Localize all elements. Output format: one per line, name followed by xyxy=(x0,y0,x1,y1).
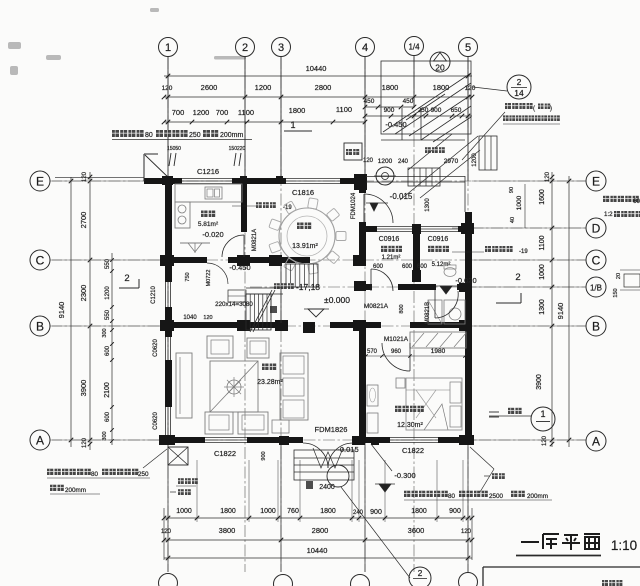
toilet xyxy=(444,268,456,277)
svg-text:-17,18: -17,18 xyxy=(296,282,320,292)
flower bed xyxy=(168,447,188,465)
svg-text:900: 900 xyxy=(449,508,461,515)
axis bubble 5 bottom xyxy=(459,573,478,586)
svg-text:2970: 2970 xyxy=(444,158,459,165)
dining labels xyxy=(297,223,304,230)
top dimension line porch row xyxy=(365,115,472,117)
entry door FDM1024 xyxy=(363,194,365,222)
kitchen counter xyxy=(175,184,242,202)
svg-text:1200: 1200 xyxy=(472,153,478,167)
interior wall axis4 vertical xyxy=(359,181,366,193)
side table bottom xyxy=(272,420,289,433)
svg-text:C: C xyxy=(36,253,45,267)
svg-text:600: 600 xyxy=(105,411,111,422)
svg-text:120: 120 xyxy=(542,435,548,446)
window C1822 left xyxy=(205,437,247,439)
svg-text:200mm: 200mm xyxy=(65,487,86,494)
stair side lines xyxy=(280,263,282,323)
sofa single bottom-left xyxy=(205,412,233,434)
left dimension line overall 9140 xyxy=(70,177,72,447)
svg-text:120: 120 xyxy=(363,158,374,164)
svg-text:C1216: C1216 xyxy=(197,167,219,176)
svg-text:M0821B: M0821B xyxy=(425,302,431,324)
svg-text:10440: 10440 xyxy=(307,546,328,555)
axis bubble C right xyxy=(586,250,606,270)
svg-text:C0916: C0916 xyxy=(428,236,449,243)
title block frame xyxy=(483,566,640,568)
svg-text:FDM1024: FDM1024 xyxy=(351,192,357,219)
sofa single top-right xyxy=(247,338,269,358)
grass label right xyxy=(484,475,490,477)
svg-text:20: 20 xyxy=(435,63,445,73)
svg-text:-0.300: -0.300 xyxy=(394,471,415,480)
svg-text:250: 250 xyxy=(189,132,201,139)
window C0916 right xyxy=(421,226,458,228)
kitchen window note leader xyxy=(232,205,256,207)
kitchen label xyxy=(201,211,208,218)
scan smudges xyxy=(8,8,246,75)
window C1210 west xyxy=(165,282,167,307)
wall C interior xyxy=(165,257,207,263)
kitchen small table xyxy=(180,242,210,244)
svg-text:2: 2 xyxy=(515,272,520,283)
svg-text:A: A xyxy=(36,433,44,447)
svg-text:1: 1 xyxy=(165,42,171,54)
svg-text:2100: 2100 xyxy=(104,382,111,398)
svg-text:240: 240 xyxy=(398,159,409,165)
svg-text:1800: 1800 xyxy=(289,106,306,115)
AC note left-bottom xyxy=(47,469,53,475)
storage door M0821A xyxy=(371,269,393,291)
svg-text:1300: 1300 xyxy=(425,198,431,212)
south steps xyxy=(294,450,354,480)
svg-text:-0.450: -0.450 xyxy=(385,120,406,129)
right edge small detail xyxy=(624,274,640,287)
detail bubble 2/14 xyxy=(507,75,531,99)
svg-text:900: 900 xyxy=(384,107,395,114)
svg-text:1200: 1200 xyxy=(378,158,393,165)
svg-text:1800: 1800 xyxy=(320,508,336,515)
axis bubble E left xyxy=(30,171,50,191)
svg-text:1200: 1200 xyxy=(255,83,272,92)
dresser upper xyxy=(367,385,378,406)
bath fixtures note leader xyxy=(452,251,484,253)
kitchen door M0821A xyxy=(222,235,244,257)
horizontal axis B xyxy=(50,325,586,327)
right dimension line segments xyxy=(551,172,553,447)
svg-text:120: 120 xyxy=(203,315,212,321)
svg-text:2800: 2800 xyxy=(315,83,332,92)
svg-text:14: 14 xyxy=(514,88,524,98)
window C1822 right xyxy=(390,437,438,439)
vertical axis lines xyxy=(167,57,169,572)
entry steps xyxy=(408,168,440,186)
window C0916 left xyxy=(377,226,412,228)
svg-text:2500: 2500 xyxy=(489,493,504,500)
svg-text:13.91m²: 13.91m² xyxy=(292,243,318,250)
top dimension line row3 left xyxy=(164,121,366,123)
svg-text:(: ( xyxy=(533,106,535,112)
svg-text:D: D xyxy=(592,221,601,235)
svg-text:2700: 2700 xyxy=(79,212,88,229)
wardrobe xyxy=(410,332,466,348)
svg-text:80: 80 xyxy=(91,471,99,478)
top dimension line overall 10440 xyxy=(164,75,472,77)
kitchen sink xyxy=(205,187,222,199)
svg-text:960: 960 xyxy=(391,349,402,355)
svg-text:B: B xyxy=(592,319,600,333)
svg-text:150220: 150220 xyxy=(229,146,246,152)
title underline xyxy=(516,555,601,557)
vertical axis extension solid bottom xyxy=(167,443,169,572)
svg-text:-19: -19 xyxy=(519,249,528,255)
svg-text:220x14=3080: 220x14=3080 xyxy=(215,301,253,308)
svg-text:3900: 3900 xyxy=(536,374,543,390)
window C1816 xyxy=(286,178,340,180)
svg-text:FDM1826: FDM1826 xyxy=(315,425,348,434)
axis bubble 2 top xyxy=(236,38,255,57)
svg-text:C0916: C0916 xyxy=(379,236,400,243)
porch labels xyxy=(425,147,431,153)
canopy outline xyxy=(381,61,471,134)
svg-text:300: 300 xyxy=(102,431,108,440)
bottom dimension row1 xyxy=(164,517,472,519)
shower tray xyxy=(428,300,442,324)
wall 1/B interior xyxy=(366,284,372,290)
svg-text:-0.020: -0.020 xyxy=(455,276,476,285)
svg-text:1800: 1800 xyxy=(411,508,427,515)
svg-text:120: 120 xyxy=(82,437,88,448)
axis bubble E right xyxy=(586,171,606,191)
AC note top xyxy=(112,130,119,137)
svg-text:5: 5 xyxy=(465,42,471,54)
window C1216 xyxy=(182,178,232,180)
svg-text:1000: 1000 xyxy=(539,264,546,280)
sofa single bottom-right xyxy=(238,412,268,434)
grass label left xyxy=(170,491,176,493)
axis bubble 3 top xyxy=(272,38,291,57)
svg-text:C1816: C1816 xyxy=(292,188,314,197)
svg-text:C1210: C1210 xyxy=(151,286,157,304)
washing machine xyxy=(344,143,362,160)
svg-text:1600: 1600 xyxy=(539,189,546,205)
left inner dimension line xyxy=(111,253,113,445)
svg-text:150: 150 xyxy=(613,288,619,297)
svg-text:E: E xyxy=(592,174,600,188)
stair landing steps xyxy=(228,290,246,302)
svg-text:1000: 1000 xyxy=(176,508,192,515)
svg-text:-0.450: -0.450 xyxy=(229,263,250,272)
svg-text:1000: 1000 xyxy=(516,195,523,210)
svg-text:-0.020: -0.020 xyxy=(202,230,223,239)
svg-text:2300: 2300 xyxy=(79,285,88,302)
sofa three-seat right xyxy=(280,353,308,420)
svg-text:120: 120 xyxy=(461,529,472,535)
svg-text:80: 80 xyxy=(448,493,456,500)
right step box xyxy=(479,136,497,170)
svg-text:1800: 1800 xyxy=(220,508,236,515)
bedroom labels xyxy=(395,406,401,412)
double door FDM1826 arcs xyxy=(303,443,328,468)
horizontal axis C xyxy=(50,259,586,261)
vertical axis extension solid top xyxy=(167,57,169,181)
axis bubble D right xyxy=(586,218,606,238)
south porch circle xyxy=(327,465,349,487)
leader to porch xyxy=(462,112,505,160)
svg-text:12.30m²: 12.30m² xyxy=(397,422,423,429)
svg-text:900: 900 xyxy=(370,509,382,516)
svg-text:2800: 2800 xyxy=(312,526,329,535)
svg-text:±0.000: ±0.000 xyxy=(324,295,350,305)
svg-text:120: 120 xyxy=(82,171,88,182)
svg-text:1300: 1300 xyxy=(539,299,546,315)
bed xyxy=(406,378,462,430)
svg-text:10440: 10440 xyxy=(306,64,327,73)
flue corner NW xyxy=(143,154,145,181)
stair treads lower xyxy=(246,294,271,330)
left axis extension solids xyxy=(52,180,165,182)
window C0620 upper west xyxy=(165,337,167,360)
next sheet text sliver xyxy=(602,580,608,586)
svg-text:5.81m²: 5.81m² xyxy=(198,221,219,228)
bottom dimension row2 xyxy=(164,539,472,541)
axis bubble 4 bottom xyxy=(351,575,370,586)
porch floor edge lines xyxy=(366,176,465,178)
svg-text:570: 570 xyxy=(367,349,378,355)
wall west xyxy=(165,178,172,282)
leader from 2/14 bubble xyxy=(473,87,507,91)
canopy diagonals xyxy=(383,73,471,132)
detail bubble 2/14 bottom xyxy=(409,567,431,586)
svg-text:40: 40 xyxy=(510,217,516,223)
svg-text:C: C xyxy=(592,253,601,267)
kitchen-dining partition wall xyxy=(241,184,247,232)
right note damp-proof course xyxy=(603,196,609,202)
kitchen stove xyxy=(175,202,190,228)
svg-text:200mm: 200mm xyxy=(220,132,244,139)
svg-text:1040: 1040 xyxy=(183,315,197,321)
horizontal axis D xyxy=(452,227,586,229)
svg-text:23.28m²: 23.28m² xyxy=(257,379,283,386)
dresser lower xyxy=(367,413,378,433)
level symbol porch xyxy=(370,203,378,211)
axis bubble B right xyxy=(586,316,606,336)
svg-text:600: 600 xyxy=(417,264,428,270)
svg-text:9140: 9140 xyxy=(57,302,66,319)
svg-text:1: 1 xyxy=(290,120,295,130)
horizontal axis E xyxy=(50,180,586,182)
svg-text:20: 20 xyxy=(616,273,622,279)
bottom dimension row3 overall xyxy=(164,557,472,559)
columns xyxy=(162,176,173,185)
axis bubble 3 bottom xyxy=(274,575,293,586)
svg-text:60: 60 xyxy=(633,198,640,205)
axis bubble A left xyxy=(30,430,50,450)
svg-text:2: 2 xyxy=(242,42,248,54)
axis bubble A right xyxy=(586,431,606,451)
svg-text:900: 900 xyxy=(431,107,442,114)
porch inner lines xyxy=(401,108,403,140)
svg-text:700: 700 xyxy=(216,108,229,117)
svg-text:600: 600 xyxy=(105,345,111,356)
storage-bath partition wall xyxy=(413,232,420,281)
horizontal axis 1/B xyxy=(250,286,586,288)
top dimension line porch 450s xyxy=(365,106,414,108)
svg-text:450: 450 xyxy=(364,98,375,105)
svg-text:1200: 1200 xyxy=(105,286,111,300)
svg-text:1000: 1000 xyxy=(260,508,276,515)
svg-text:4: 4 xyxy=(362,42,368,54)
svg-text:1100: 1100 xyxy=(336,105,352,114)
AC note bottom-right xyxy=(404,491,410,497)
leader south xyxy=(371,444,392,471)
svg-text:M0821A: M0821A xyxy=(252,229,258,251)
svg-text:1800: 1800 xyxy=(382,83,399,92)
svg-text:M0722: M0722 xyxy=(206,270,212,287)
dining chairs xyxy=(336,232,346,241)
svg-text:C0620: C0620 xyxy=(153,412,159,430)
flower bed label xyxy=(178,478,184,484)
svg-text:200mm: 200mm xyxy=(527,493,548,500)
detail bubble 1 right xyxy=(531,407,555,431)
living labels xyxy=(262,364,269,371)
horizontal axis A xyxy=(50,439,586,441)
svg-text:120: 120 xyxy=(161,529,172,535)
top dimension line row2 xyxy=(164,96,472,98)
svg-text:1100: 1100 xyxy=(539,235,546,250)
svg-text:1/4: 1/4 xyxy=(408,43,420,52)
sofa single top-left xyxy=(207,336,233,358)
tv cabinet xyxy=(176,353,192,418)
right inner dims top xyxy=(524,184,526,228)
svg-text:450: 450 xyxy=(403,98,414,105)
svg-text:C0620: C0620 xyxy=(153,339,159,357)
axis bubble 4 top xyxy=(356,38,375,57)
left dimension line segments xyxy=(89,172,91,450)
right dimension line overall 9140 xyxy=(568,176,570,447)
svg-text:550: 550 xyxy=(105,309,111,320)
bottom dim extension verticals xyxy=(196,460,198,522)
svg-text:1/B: 1/B xyxy=(590,284,602,293)
svg-text:2600: 2600 xyxy=(201,83,218,92)
wall A south xyxy=(165,437,205,443)
svg-text:2: 2 xyxy=(517,77,522,87)
right axis extension solids xyxy=(472,180,586,182)
svg-text:750: 750 xyxy=(185,272,191,281)
E wall extension line left xyxy=(55,177,144,179)
title first-floor plan xyxy=(521,534,600,550)
svg-text:120: 120 xyxy=(162,85,173,92)
svg-text:15050: 15050 xyxy=(167,146,181,152)
leader to bottom bubble xyxy=(341,487,410,578)
stair note xyxy=(274,283,280,289)
svg-text:700: 700 xyxy=(172,108,185,117)
svg-text:3800: 3800 xyxy=(219,526,236,535)
svg-text:2: 2 xyxy=(418,568,423,578)
svg-text:1100: 1100 xyxy=(238,108,254,117)
axis bubble 1/B right xyxy=(586,277,606,297)
svg-text:1200: 1200 xyxy=(193,108,210,117)
svg-text:760: 760 xyxy=(287,508,299,515)
window C0620 lower west xyxy=(165,407,167,436)
svg-text:1: 1 xyxy=(540,409,545,419)
svg-text:900: 900 xyxy=(261,451,267,460)
AC leader right xyxy=(470,447,494,469)
svg-text:2400: 2400 xyxy=(319,484,335,491)
svg-text:1:2: 1:2 xyxy=(604,211,613,218)
svg-text:): ) xyxy=(550,106,552,112)
axis bubble 1 bottom xyxy=(159,574,178,586)
sewage well xyxy=(376,167,394,185)
svg-text:1980: 1980 xyxy=(431,348,446,355)
axis bubble 1 top xyxy=(159,38,178,57)
dining table xyxy=(279,208,335,264)
bedside table xyxy=(396,378,405,388)
septic tank note xyxy=(505,103,511,109)
svg-text:2: 2 xyxy=(124,273,129,284)
rug with plant xyxy=(210,361,258,412)
axis bubble 1/4 top xyxy=(405,37,424,56)
svg-text:250: 250 xyxy=(138,471,149,478)
up 2400 label xyxy=(306,481,313,489)
wall east axis5 xyxy=(465,212,472,443)
roof symbol bubble 20 xyxy=(430,52,450,72)
vent symbols xyxy=(169,153,171,166)
svg-text:E: E xyxy=(36,174,44,188)
svg-text:120: 120 xyxy=(545,171,551,182)
svg-text:300: 300 xyxy=(102,328,108,337)
svg-text:1800: 1800 xyxy=(433,83,450,92)
wall B interior xyxy=(165,322,283,328)
svg-text:B: B xyxy=(36,319,44,333)
svg-text:1.21m²: 1.21m² xyxy=(382,255,401,261)
svg-text:3600: 3600 xyxy=(408,526,425,535)
svg-text:600: 600 xyxy=(402,264,413,270)
svg-text:M0821A: M0821A xyxy=(364,303,389,310)
axis bubble C left xyxy=(30,250,50,270)
AC leader left xyxy=(143,449,167,468)
stair break line xyxy=(250,290,272,332)
svg-text:800: 800 xyxy=(399,304,405,313)
axis bubble 5 top xyxy=(459,38,478,57)
svg-text:80: 80 xyxy=(145,132,153,139)
splash apron note xyxy=(508,408,514,414)
svg-text:M1021A: M1021A xyxy=(384,336,409,343)
axis bubble B left xyxy=(30,316,50,336)
svg-text:C1822: C1822 xyxy=(214,449,236,458)
svg-text:9140: 9140 xyxy=(556,303,565,320)
svg-text:90: 90 xyxy=(509,187,515,193)
wall E north xyxy=(144,178,182,184)
svg-text:C1822: C1822 xyxy=(402,446,424,455)
washbasin counter xyxy=(444,300,465,324)
svg-text:A: A xyxy=(592,434,600,448)
svg-text:3: 3 xyxy=(278,42,284,54)
svg-text:1:10: 1:10 xyxy=(611,538,637,553)
bath door M0821B xyxy=(434,290,436,318)
svg-text:3900: 3900 xyxy=(79,380,88,397)
wall D storage/bath north xyxy=(366,226,377,232)
stair treads upper xyxy=(286,264,318,287)
svg-text:-0.015: -0.015 xyxy=(390,192,413,201)
